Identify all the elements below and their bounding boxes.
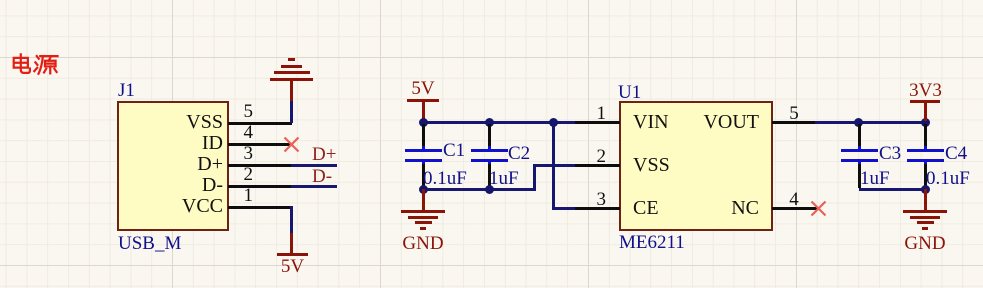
junction at C2 top xyxy=(485,118,494,127)
pin 1 VCC of J1 xyxy=(228,206,292,209)
GND text right xyxy=(902,234,948,253)
GND text left xyxy=(400,234,446,253)
ground rail under C1/C2 xyxy=(423,188,536,191)
regulator U1 body xyxy=(619,101,773,231)
pin 4 name NC xyxy=(650,198,759,218)
pin 1 name VIN xyxy=(633,112,669,132)
net label D- xyxy=(312,167,332,186)
J1 comment USB_M xyxy=(118,234,181,253)
C2 designator xyxy=(508,144,530,163)
wire CE tap vertical xyxy=(552,121,555,210)
capacitor C2 xyxy=(488,124,491,148)
U1 comment ME6211 xyxy=(619,233,685,252)
GND symbol right xyxy=(924,189,927,210)
C3 designator xyxy=(879,144,901,163)
wire net D- xyxy=(291,185,337,188)
pin 2 D- of J1 xyxy=(228,185,292,188)
power port 5V (bottom) xyxy=(290,233,293,254)
pin 5 number xyxy=(233,102,253,121)
capacitor C1 xyxy=(422,124,425,148)
pin 5 VSS of J1 xyxy=(228,122,292,125)
pin 5 name VOUT xyxy=(650,112,759,132)
pin 1 name VCC xyxy=(120,196,223,216)
pin 4 NC of U1 xyxy=(772,207,817,210)
junction at C3 top xyxy=(854,118,863,127)
junction at C4/3V3 xyxy=(921,118,930,127)
power ground symbol above J1 xyxy=(290,80,293,101)
capacitor C4 xyxy=(924,124,927,148)
wire to U1 VSS xyxy=(533,164,577,167)
no-ERC cross on pin 4 of U1 xyxy=(809,199,828,218)
pin 3 name D+ xyxy=(120,154,223,174)
regulator U1 designator xyxy=(618,83,641,102)
pin 3 number xyxy=(233,144,253,163)
pin 2 name D- xyxy=(120,175,223,195)
junction at C4 bottom xyxy=(921,185,930,194)
pin 1 VIN of U1 xyxy=(575,121,620,124)
connector J1 designator xyxy=(118,81,135,100)
junction at C1 bottom xyxy=(419,185,428,194)
pin 4 name ID xyxy=(120,133,223,153)
no-ERC cross on pin 4 xyxy=(282,135,301,154)
pin 4 number xyxy=(233,123,253,142)
pin 5 number xyxy=(784,104,804,123)
wire CE horizontal xyxy=(552,207,577,210)
C2 value 1uF xyxy=(489,169,519,188)
pin 4 ID of J1 xyxy=(228,143,292,146)
pin 1 number xyxy=(586,104,606,123)
pin 3 number xyxy=(586,190,606,209)
wire jog up to U1 VSS xyxy=(533,164,536,189)
C1 value 0.1uF xyxy=(423,169,467,188)
net label D+ xyxy=(312,145,336,164)
power port 3V3 xyxy=(908,81,943,100)
junction at CE tap xyxy=(549,118,558,127)
wire 5V rail to U1 VIN xyxy=(423,121,577,124)
GND symbol left xyxy=(422,189,425,210)
pin 5 name VSS xyxy=(120,112,223,132)
pin 2 VSS of U1 xyxy=(575,164,620,167)
pin 3 CE of U1 xyxy=(575,207,620,210)
power port 5V (top of filter section) xyxy=(407,79,439,98)
C4 value 0.1uF xyxy=(926,169,970,188)
pin 2 name VSS xyxy=(633,155,670,175)
junction at C2 bottom xyxy=(485,185,494,194)
wire VOUT to 3V3 rail xyxy=(815,121,925,124)
pin 3 name CE xyxy=(633,198,659,218)
pin 2 number xyxy=(233,165,253,184)
pin 2 number xyxy=(586,147,606,166)
C3 value 1uF xyxy=(860,169,890,188)
wire from pin 5 up to ground xyxy=(290,100,293,123)
pin 1 number xyxy=(233,186,253,205)
wire net D+ xyxy=(291,164,337,167)
C1 designator xyxy=(443,141,465,160)
pin 3 D+ of J1 xyxy=(228,164,292,167)
pin 5 VOUT of U1 xyxy=(772,121,817,124)
title 电源 (power) xyxy=(9,53,60,76)
connector J1 body (USB_M) xyxy=(117,101,229,231)
wire from pin 1 down to 5V port xyxy=(290,206,293,234)
pin 4 number xyxy=(784,190,804,209)
junction at 5V stub xyxy=(419,118,428,127)
C4 designator xyxy=(945,144,967,163)
capacitor C3 xyxy=(858,124,861,148)
ground rail under C3/C4 xyxy=(859,188,925,191)
